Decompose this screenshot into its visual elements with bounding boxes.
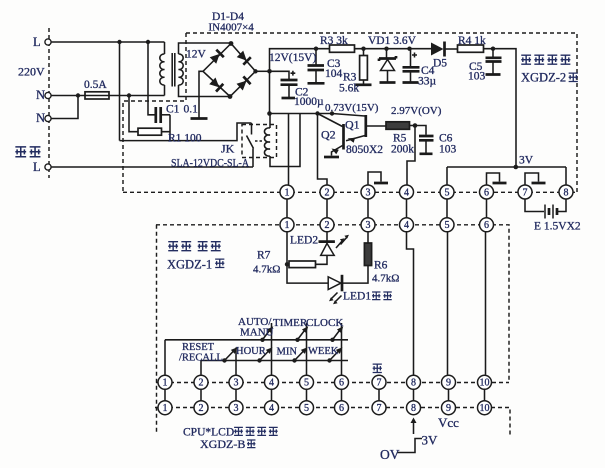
svg-text:10: 10 [480, 403, 490, 414]
svg-text:5: 5 [304, 378, 309, 389]
svg-text:3: 3 [366, 220, 371, 231]
svg-text:SLA-12VDC-SL-A: SLA-12VDC-SL-A [171, 156, 249, 170]
svg-text:TIMER: TIMER [273, 317, 308, 329]
svg-text:CLOCK: CLOCK [306, 317, 343, 329]
svg-text:10: 10 [480, 378, 490, 389]
svg-text:104: 104 [325, 68, 343, 80]
svg-text:Q1: Q1 [345, 118, 360, 132]
svg-text:12V(15V): 12V(15V) [269, 52, 316, 64]
svg-text:103: 103 [468, 71, 486, 83]
svg-text:N: N [36, 111, 45, 125]
svg-text:5: 5 [445, 220, 450, 231]
svg-text:6: 6 [484, 220, 489, 231]
svg-text:MIN: MIN [277, 347, 298, 358]
svg-text:R4 1k: R4 1k [458, 35, 486, 47]
svg-text:RESET: RESET [182, 342, 215, 353]
svg-text:4: 4 [404, 220, 409, 231]
svg-text:5: 5 [445, 187, 450, 198]
svg-text:E 1.5VX2: E 1.5VX2 [534, 221, 581, 233]
svg-text:2: 2 [325, 187, 330, 198]
svg-text:0.73V(15V): 0.73V(15V) [325, 102, 379, 114]
svg-text:LED2: LED2 [290, 235, 318, 247]
svg-text:JK: JK [221, 142, 235, 156]
svg-text:6: 6 [484, 187, 489, 198]
svg-text:8050X2: 8050X2 [346, 144, 383, 156]
svg-text:R6: R6 [374, 260, 388, 272]
svg-text:9: 9 [446, 378, 451, 389]
svg-text:Vcc: Vcc [438, 415, 459, 430]
svg-text:L: L [33, 35, 41, 49]
svg-text:L: L [33, 160, 41, 174]
svg-text:6: 6 [339, 403, 344, 414]
svg-text:4.7kΩ: 4.7kΩ [372, 273, 399, 285]
svg-text:7: 7 [523, 187, 528, 198]
svg-text:2.97V(OV): 2.97V(OV) [391, 105, 442, 117]
svg-text:2: 2 [199, 378, 204, 389]
svg-text:/RECALL: /RECALL [179, 353, 223, 364]
svg-text:103: 103 [439, 144, 457, 156]
svg-text:3V: 3V [519, 155, 534, 167]
svg-text:R7: R7 [257, 250, 271, 262]
svg-text:8: 8 [411, 378, 416, 389]
svg-text:R3 3k: R3 3k [320, 35, 348, 47]
svg-text:1: 1 [163, 378, 168, 389]
svg-text:6: 6 [339, 378, 344, 389]
svg-text:7: 7 [377, 378, 382, 389]
svg-text:1: 1 [285, 187, 290, 198]
svg-text:220V: 220V [18, 65, 45, 79]
svg-text:1: 1 [285, 220, 290, 231]
svg-text:7: 7 [377, 403, 382, 414]
svg-text:XGDZ-B: XGDZ-B [200, 437, 245, 451]
svg-text:33µ: 33µ [418, 76, 437, 88]
svg-text:12V: 12V [186, 49, 207, 61]
svg-text:2: 2 [199, 403, 204, 414]
svg-text:1: 1 [163, 403, 168, 414]
svg-text:3V: 3V [422, 433, 439, 448]
svg-text:LED1: LED1 [343, 291, 371, 303]
svg-text:4: 4 [404, 187, 409, 198]
svg-text:3: 3 [234, 403, 239, 414]
svg-text:C1: C1 [166, 104, 180, 116]
svg-text:3: 3 [234, 378, 239, 389]
svg-text:5: 5 [304, 403, 309, 414]
svg-text:4: 4 [269, 403, 274, 414]
svg-text:200k: 200k [391, 144, 414, 156]
svg-text:XGDZ-2: XGDZ-2 [521, 71, 566, 85]
svg-text:3: 3 [366, 187, 371, 198]
svg-text:WEEK: WEEK [308, 346, 339, 357]
svg-text:XGDZ-1: XGDZ-1 [167, 258, 212, 272]
svg-text:MANU: MANU [240, 327, 274, 339]
svg-text:1000µ: 1000µ [294, 96, 324, 108]
svg-text:HOUR: HOUR [236, 346, 266, 357]
svg-text:5.6k: 5.6k [339, 83, 359, 95]
svg-text:4: 4 [269, 378, 274, 389]
svg-text:8: 8 [411, 403, 416, 414]
svg-text:D5: D5 [433, 58, 447, 70]
svg-text:R1 100: R1 100 [168, 133, 202, 145]
svg-text:8: 8 [564, 187, 569, 198]
svg-text:N: N [36, 88, 45, 102]
svg-text:2: 2 [325, 220, 330, 231]
svg-text:VD1 3.6V: VD1 3.6V [368, 35, 417, 47]
svg-text:0.5A: 0.5A [84, 79, 107, 91]
svg-text:IN4007×4: IN4007×4 [209, 22, 255, 34]
svg-text:OV: OV [380, 447, 400, 462]
svg-text:9: 9 [446, 403, 451, 414]
svg-text:4.7kΩ: 4.7kΩ [253, 264, 280, 276]
svg-text:0.1: 0.1 [184, 104, 199, 116]
svg-text:Q2: Q2 [321, 128, 336, 142]
